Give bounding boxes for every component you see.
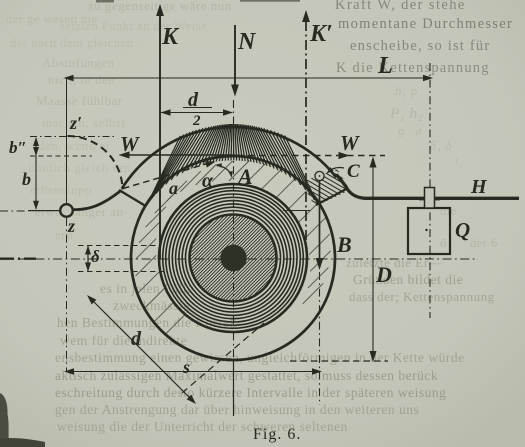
- chain band outer edge arc: [122, 127, 336, 189]
- chain band left cut edge: [119, 190, 147, 207]
- svg-text:gen der Anstrengung dar über: gen der Anstrengung dar über hinweisung …: [55, 402, 419, 417]
- svg-text:Abstufungen: Abstufungen: [42, 55, 115, 70]
- wheel outer circle: [131, 156, 335, 360]
- svg-text:den, wenn er: den, wenn er: [38, 138, 111, 153]
- svg-text:machen, selbst: machen, selbst: [42, 115, 126, 130]
- force arrow N (wheel weight, x=235): [234, 25, 236, 87]
- svg-text:C: C: [347, 161, 360, 182]
- svg-text:α: α: [202, 170, 214, 192]
- force arrow B (chain pull at C, x=319.5): [319, 181, 321, 260]
- dashed diagonal extension through rim: [182, 323, 264, 393]
- extension dashed line at W level (y=156): [30, 155, 92, 157]
- dimension L (y=78): [67, 77, 430, 79]
- svg-text:weisung die der Unterricht d: weisung die der Unterricht der schweren …: [57, 419, 348, 434]
- chain band radial fan hatching: [141, 124, 318, 217]
- svg-text:B: B: [336, 232, 352, 257]
- svg-text:dass der; Kettenspannung: dass der; Kettenspannung: [349, 289, 495, 304]
- svg-text:nicht in den: nicht in den: [48, 72, 115, 87]
- svg-text:d: d: [131, 328, 142, 350]
- svg-text:K′: K′: [309, 21, 333, 47]
- svg-text:setzten Punkt an der Weise: setzten Punkt an der Weise: [60, 19, 207, 33]
- svg-text:d: d: [188, 89, 199, 111]
- wire: vertical centre line of wheel: [233, 100, 235, 360]
- dimension d (45-degree diagonal): [89, 297, 194, 402]
- svg-text:der 6: der 6: [470, 236, 498, 250]
- svg-text:K die Kettenspannung: K die Kettenspannung: [336, 60, 490, 76]
- dimension s (y=371.5): [67, 371, 319, 373]
- svg-text:s: s: [182, 357, 190, 377]
- svg-text:zuletzte die Er—: zuletzte die Er—: [346, 255, 443, 270]
- svg-text:b: b: [22, 169, 31, 189]
- svg-text:P₁ h₂: P₁ h₂: [389, 106, 423, 122]
- point C circle marker: [315, 171, 324, 180]
- svg-text:W: W: [120, 132, 140, 156]
- angle alpha arc with arrows: [217, 166, 232, 177]
- chain leaving sprocket: outer transition curve and straight chain to the right: [336, 175, 519, 199]
- sprocket ring circles: [159, 184, 307, 332]
- svg-text:enscheibe, so ist für: enscheibe, so ist für: [350, 38, 490, 54]
- svg-text:b″: b″: [9, 138, 27, 157]
- svg-text:W: W: [340, 131, 360, 155]
- svg-text:g · d: g · d: [398, 124, 423, 138]
- dimension delta (x=88): [87, 246, 89, 271]
- rope from pulley z to band (left): [73, 191, 122, 210]
- dimension d/2 (y=112.5): [161, 112, 232, 114]
- hub / shaft dark boss: [220, 245, 246, 271]
- wheel web sparse hatch: [136, 161, 331, 335]
- svg-text:zweckmässig: zweckmässig: [113, 298, 190, 313]
- svg-text:etwas länger an-: etwas länger an-: [35, 204, 128, 219]
- label C leader hook: [328, 168, 345, 173]
- svg-text:der nach dem gleichen: der nach dem gleichen: [10, 36, 134, 50]
- svg-text:eschreitung durch desto kür: eschreitung durch desto kürzere Interval…: [55, 385, 446, 400]
- svg-text:Maasse fühlbar: Maasse fühlbar: [36, 93, 123, 108]
- dashed tangent lines of shaft (y=245.5 / y=271.5): [78, 245, 161, 247]
- dashed chord line a: [123, 163, 211, 189]
- wire: main horizontal axis centre line: [0, 258, 478, 260]
- svg-text:momentane Durchmesser: momentane Durchmesser: [338, 16, 513, 32]
- weight Q box: [408, 208, 450, 254]
- svg-text:z′: z′: [69, 113, 82, 133]
- svg-text:H: H: [470, 176, 488, 198]
- wire: horizontal centre line through pulley z (y=211): [0, 210, 28, 212]
- svg-text:K: K: [161, 24, 180, 50]
- wire: vertical dash-dot line through point C (x=319.5): [319, 272, 321, 405]
- svg-text:z: z: [67, 216, 75, 236]
- svg-text:ö: ö: [440, 235, 447, 250]
- svg-text:Q: Q: [455, 218, 470, 242]
- svg-text:D: D: [375, 262, 392, 287]
- dimension D (x=373): [372, 158, 374, 360]
- svg-text:Fig. 6.: Fig. 6.: [253, 426, 301, 443]
- dimension b and b'' (x=36): [35, 138, 37, 209]
- force arrow W right (dashed, y=155.5): [237, 155, 385, 157]
- force arrow K (vertical line x=160): [159, 13, 161, 259]
- svg-text:A: A: [236, 164, 253, 189]
- pulley z (small circle): [60, 204, 73, 217]
- dashed extension line bottom of wheel (y=361): [290, 360, 388, 362]
- chain band right cut edge: [316, 189, 347, 206]
- svg-text:Gründen bildet die: Gründen bildet die: [353, 272, 463, 287]
- svg-text:δ: δ: [91, 247, 100, 266]
- page edge dark smudges bottom-left: [0, 393, 9, 447]
- svg-text:t₁: t₁: [455, 154, 464, 168]
- wire: vertical extension line through pulley z (x=66.5): [66, 78, 68, 204]
- svg-text:δ₁ δ: δ₁ δ: [430, 138, 452, 153]
- svg-text:ühnlich gleich ern: ühnlich gleich ern: [28, 160, 131, 175]
- svg-text:erhebstupp: erhebstupp: [30, 182, 92, 197]
- svg-text:Kraft W, der stehe: Kraft W, der stehe: [335, 0, 466, 13]
- wire: vertical dash-dot line through weight Q (x=430): [429, 63, 431, 318]
- svg-text:L: L: [377, 53, 393, 79]
- weight Q hook stem: [425, 188, 435, 209]
- svg-text:aktisch zulässigen Maximalwert: aktisch zulässigen Maximalwert gestattet…: [55, 368, 438, 383]
- force line K' (dash-dot, x=306): [305, 21, 307, 248]
- svg-text:h₁ p: h₁ p: [395, 83, 418, 98]
- svg-text:2: 2: [192, 113, 201, 129]
- chain band end wedge hatching (right): [286, 150, 376, 237]
- force arrow W left (y=155): [127, 154, 235, 156]
- svg-text:N: N: [237, 29, 257, 55]
- svg-text:die: die: [440, 204, 457, 218]
- extension dash-dot line at z' level (y=136.5): [30, 136, 116, 138]
- inner disc 45-degree hatch: [111, 210, 352, 306]
- dashed arc: alternate rope position z': [68, 136, 123, 190]
- svg-text:a: a: [169, 178, 178, 198]
